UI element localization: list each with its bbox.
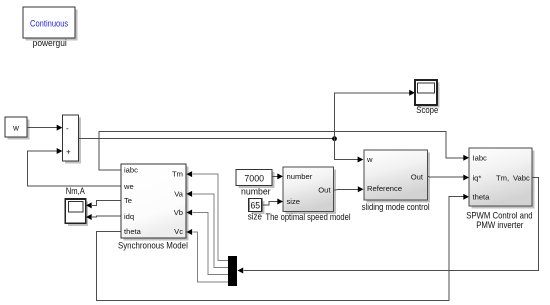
svg-text:Tm,: Tm, (496, 173, 509, 182)
svg-text:65: 65 (251, 201, 261, 212)
arrowhead into Reference (358, 186, 364, 192)
arrowhead into SPWM Iabc (463, 155, 469, 161)
svg-text:The optimal speed model: The optimal speed model (265, 212, 350, 222)
svg-text:number: number (287, 172, 313, 181)
svg-text:Tm: Tm (172, 170, 183, 179)
wire iabc to SPWM Iabc (99, 131, 464, 170)
svg-text:Vb: Vb (174, 208, 183, 217)
wire idq to NmA input2 (92, 215, 121, 218)
svg-text:7000: 7000 (244, 173, 264, 184)
powergui block (23, 7, 78, 41)
svg-text:PMW inverter: PMW inverter (476, 220, 523, 230)
arrowhead into sliding w (358, 157, 364, 163)
svg-text:Te: Te (124, 196, 132, 205)
wire junction to Scope (335, 93, 410, 139)
wire Te to NmA input1 (92, 200, 121, 205)
arrowhead into Tm (186, 171, 192, 177)
arrowhead into number (277, 173, 283, 179)
svg-text:powergui: powergui (33, 38, 67, 48)
SPWM block (469, 148, 535, 209)
svg-text:Iabc: Iabc (473, 154, 488, 163)
Scope block (415, 80, 440, 108)
arrowhead into Vb (186, 210, 192, 216)
arrowhead into NmA input1 (86, 202, 92, 208)
arrowhead into Vc (186, 229, 192, 235)
svg-text:Vc: Vc (174, 227, 183, 236)
wire demux out2 to Va (192, 194, 228, 268)
The optimal speed model block (283, 167, 336, 214)
junction dot (332, 136, 337, 141)
wire sliding Out to SPWM iq* (427, 176, 463, 179)
svg-text:Scope: Scope (416, 105, 438, 115)
svg-text:iq*: iq* (473, 173, 482, 182)
wire w to sum (27, 127, 57, 129)
arrowhead into Va (186, 191, 192, 197)
wire demux out4 to Vc (192, 232, 228, 282)
wire sum out to junction (79, 138, 335, 140)
svg-text:Out: Out (318, 186, 331, 195)
wire SPWM Vabc to demux (244, 178, 539, 271)
svg-text:Nm,A: Nm,A (66, 186, 86, 196)
svg-text:number: number (241, 187, 271, 197)
svg-text:-: - (66, 124, 69, 133)
svg-text:Continuous: Continuous (30, 18, 68, 28)
wire junction to sliding w (335, 139, 358, 160)
constant 7000 (236, 170, 275, 188)
arrowhead into sum plus (57, 148, 63, 154)
Synchronous Model block (121, 164, 189, 241)
constant 65 (249, 199, 265, 215)
sliding mode control block (364, 150, 430, 203)
svg-text:w: w (12, 124, 19, 133)
svg-text:Va: Va (174, 190, 184, 199)
svg-text:+: + (66, 148, 71, 157)
scope Nm,A (65, 199, 88, 226)
svg-text:Out: Out (411, 172, 424, 181)
svg-text:we: we (123, 182, 134, 191)
constant w (5, 117, 30, 140)
arrowhead into sum minus (57, 125, 63, 131)
svg-text:Reference: Reference (367, 184, 402, 193)
svg-text:w: w (366, 155, 373, 164)
wire we to sum plus (28, 151, 122, 186)
svg-text:sliding mode control: sliding mode control (362, 202, 430, 212)
arrowhead into Scope (409, 90, 415, 96)
wire theta to SPWM theta (97, 197, 464, 301)
demux bar (228, 256, 237, 286)
sum block (63, 115, 82, 164)
svg-text:theta: theta (124, 227, 142, 236)
svg-text:Synchronous Model: Synchronous Model (118, 241, 188, 251)
arrowhead into SPWM theta (463, 194, 469, 200)
svg-text:theta: theta (473, 193, 491, 202)
wire demux out3 to Vb (192, 213, 228, 275)
arrowhead into size (277, 199, 283, 205)
wire demux out1 to Tm (192, 174, 228, 260)
arrowhead into iq* (463, 175, 469, 181)
svg-text:idq: idq (124, 212, 134, 221)
svg-text:Vabc: Vabc (513, 173, 530, 182)
svg-text:size: size (248, 212, 262, 222)
svg-text:size: size (287, 197, 301, 206)
wire 65 to size port (262, 202, 278, 205)
wire 7000 to number port (272, 175, 277, 177)
arrowhead into demux (238, 268, 244, 274)
wire optimal Out to Reference (334, 188, 359, 191)
arrowhead into NmA input2 (86, 214, 92, 220)
svg-text:iabc: iabc (124, 166, 138, 175)
